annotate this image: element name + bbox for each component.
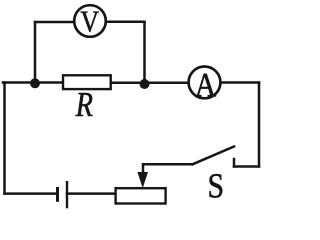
wire switch lever — [193, 147, 235, 165]
resistor R — [63, 75, 111, 116]
voltmeter V — [74, 5, 106, 37]
ammeter A — [189, 67, 221, 99]
wire main top left segment — [3, 81, 62, 84]
wire voltmeter branch left vertical — [34, 22, 37, 83]
wire voltmeter branch top-left horizontal — [35, 21, 74, 24]
wire voltmeter branch top-right horizontal — [106, 21, 145, 24]
wire bottom to battery — [5, 192, 58, 195]
switch S label — [210, 174, 223, 197]
rheostat (slide resistor) — [116, 164, 166, 203]
wire voltmeter branch right vertical — [143, 22, 146, 83]
wire ammeter to top-right corner — [221, 81, 259, 84]
node A (left junction) — [30, 78, 40, 88]
wire rheostat slider to switch — [143, 163, 193, 166]
wire battery to rheostat — [67, 192, 115, 195]
wire switch stub bottom-right — [234, 165, 259, 168]
wire switch fixed contact post — [233, 159, 236, 167]
wire right vertical — [258, 83, 261, 167]
node B (right junction) — [140, 79, 150, 89]
wire between resistor and ammeter — [111, 82, 188, 85]
wire left vertical — [3, 83, 6, 194]
battery — [58, 181, 68, 208]
